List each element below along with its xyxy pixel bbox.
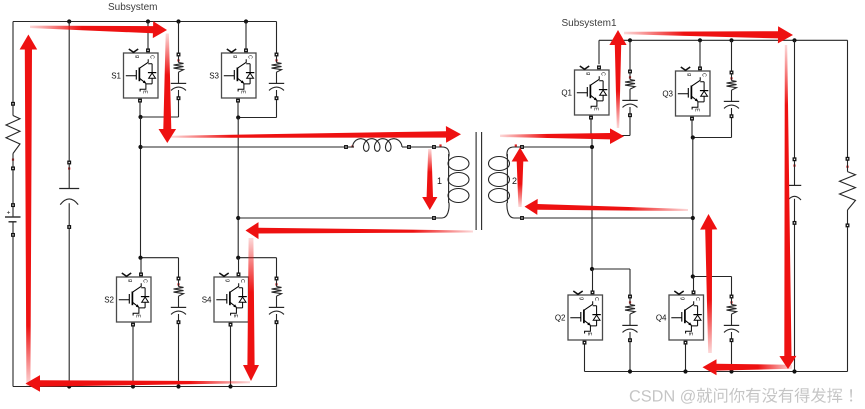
svg-text:S1: S1 (111, 72, 121, 81)
svg-text:Subsystem: Subsystem (108, 2, 157, 13)
svg-text:Q2: Q2 (555, 314, 566, 323)
svg-text:Q3: Q3 (662, 90, 673, 99)
svg-text:S3: S3 (209, 72, 219, 81)
svg-text:S2: S2 (104, 296, 114, 305)
svg-text:1: 1 (437, 176, 442, 186)
svg-text:2: 2 (512, 176, 517, 186)
svg-text:Subsystem1: Subsystem1 (562, 18, 617, 29)
svg-text:Q1: Q1 (561, 89, 572, 98)
svg-text:+: + (7, 210, 11, 217)
svg-text:S4: S4 (202, 296, 212, 305)
svg-text:Q4: Q4 (656, 314, 667, 323)
